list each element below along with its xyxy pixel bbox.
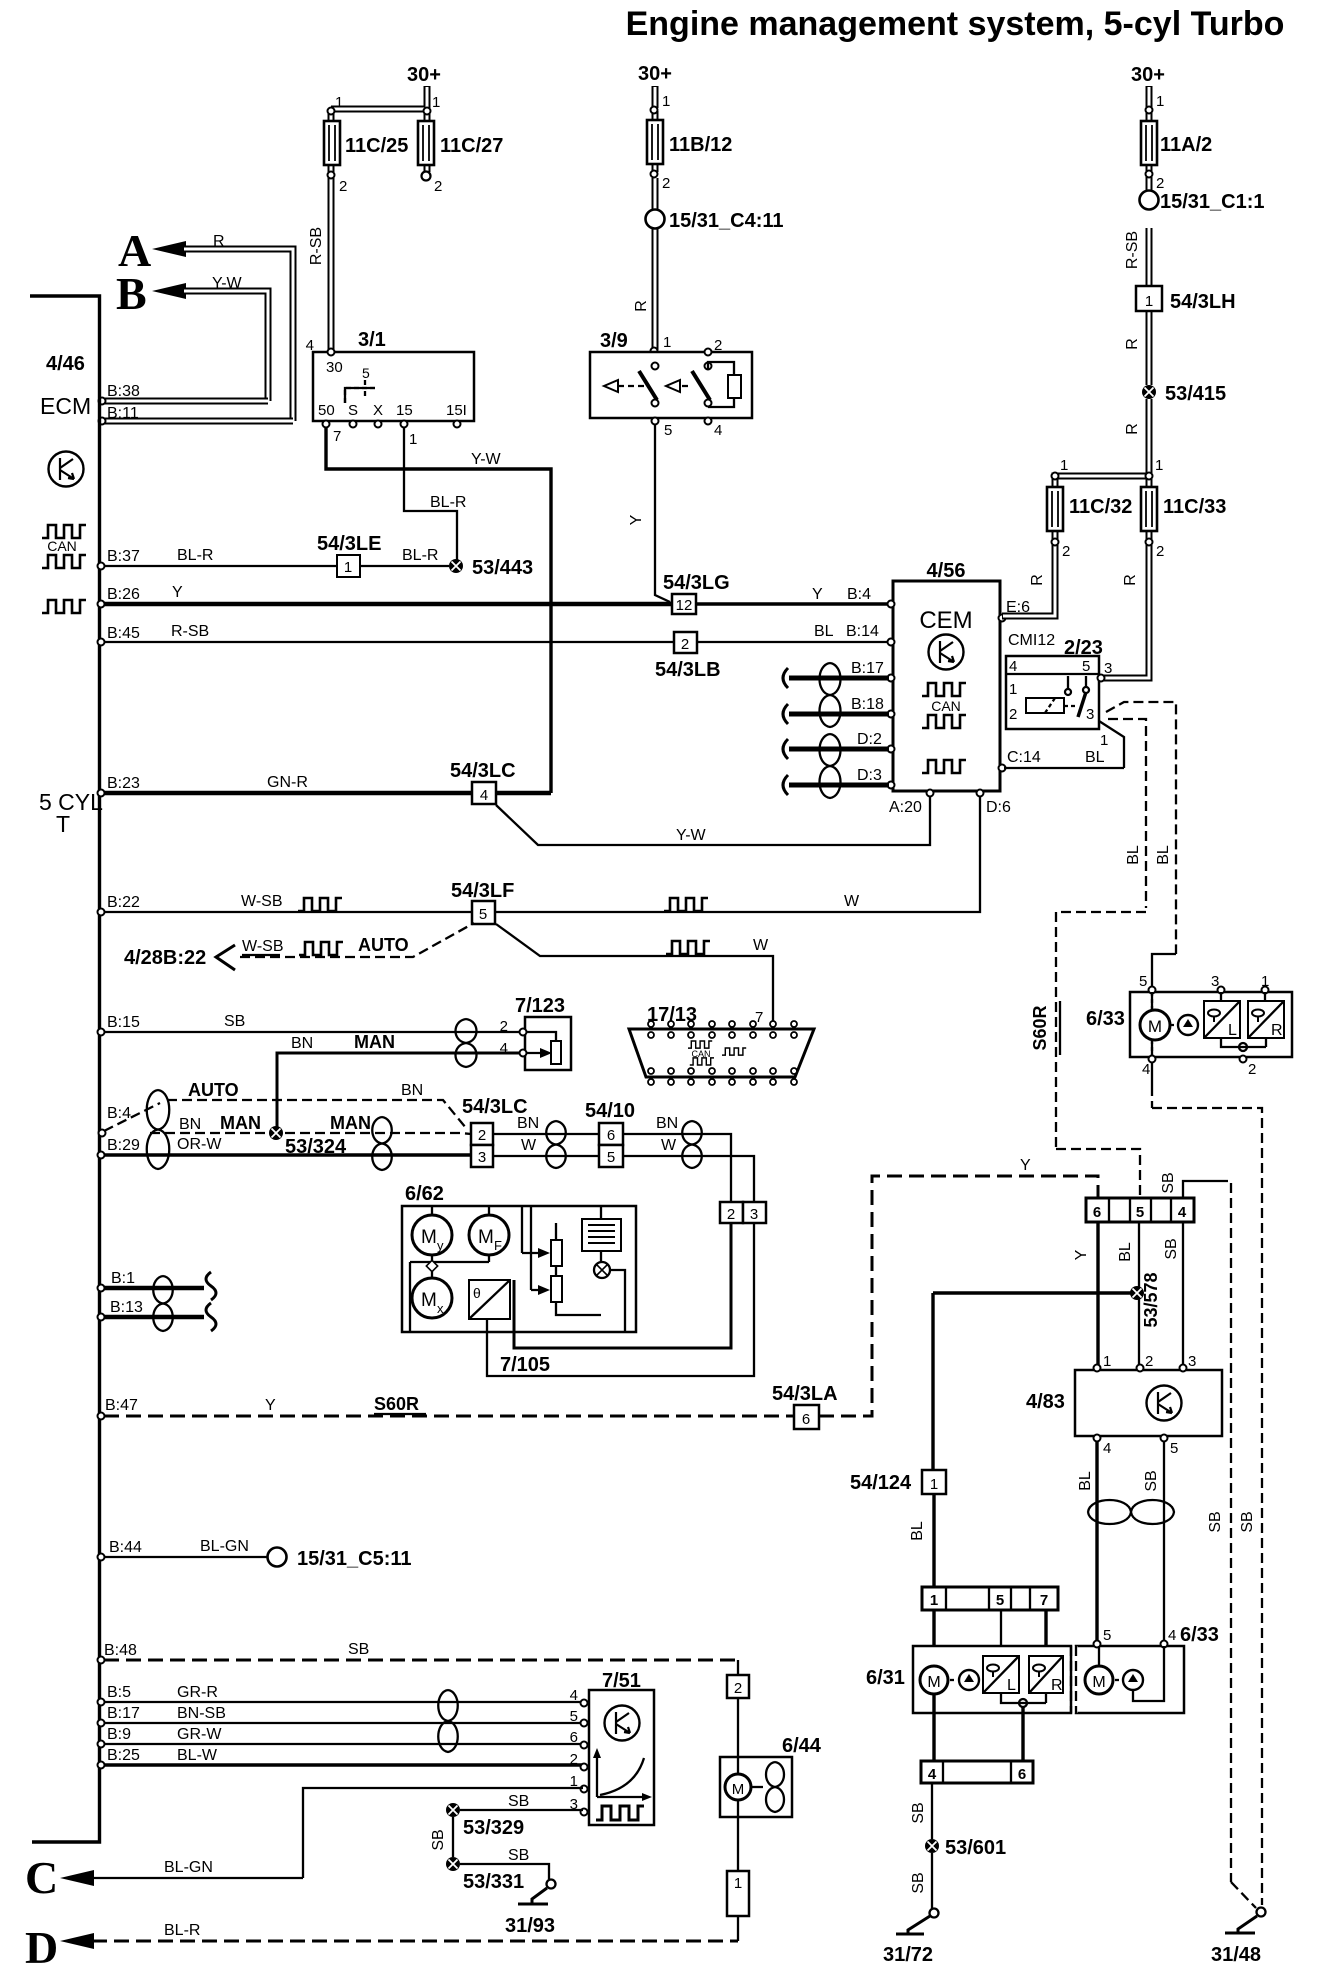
svg-text:54/3LB: 54/3LB xyxy=(655,659,721,681)
svg-text:15I: 15I xyxy=(446,402,467,419)
svg-text:W: W xyxy=(753,937,769,954)
svg-text:R-SB: R-SB xyxy=(1124,231,1141,269)
svg-text:53/601: 53/601 xyxy=(945,1837,1006,1859)
svg-text:7/123: 7/123 xyxy=(515,995,565,1017)
svg-text:B:26: B:26 xyxy=(107,586,140,603)
svg-text:1: 1 xyxy=(432,94,440,111)
svg-text:R: R xyxy=(1124,338,1141,350)
svg-text:30+: 30+ xyxy=(407,64,441,86)
svg-text:1: 1 xyxy=(734,1875,742,1892)
svg-text:W: W xyxy=(661,1137,677,1154)
svg-text:5: 5 xyxy=(607,1149,615,1166)
svg-text:6/62: 6/62 xyxy=(405,1183,444,1205)
svg-text:54/3LH: 54/3LH xyxy=(1170,291,1236,313)
svg-text:B:5: B:5 xyxy=(107,1684,131,1701)
svg-text:7/105: 7/105 xyxy=(500,1354,550,1376)
svg-text:SB: SB xyxy=(1207,1511,1224,1532)
svg-text:6/31: 6/31 xyxy=(866,1667,905,1689)
svg-text:3/9: 3/9 xyxy=(600,330,628,352)
svg-text:11A/2: 11A/2 xyxy=(1160,134,1212,156)
svg-text:B:17: B:17 xyxy=(107,1705,140,1722)
svg-text:M: M xyxy=(732,1781,745,1798)
svg-text:4: 4 xyxy=(1168,1627,1176,1644)
svg-text:CEM: CEM xyxy=(919,607,972,634)
svg-text:T: T xyxy=(56,811,70,837)
svg-text:SB: SB xyxy=(508,1847,529,1864)
svg-text:1: 1 xyxy=(662,93,670,110)
svg-text:Y: Y xyxy=(265,1397,276,1414)
svg-text:5 CYL: 5 CYL xyxy=(39,789,103,815)
svg-text:5: 5 xyxy=(996,1592,1004,1609)
svg-text:S60R: S60R xyxy=(374,1394,419,1414)
svg-text:ECM: ECM xyxy=(40,393,91,419)
svg-text:BL: BL xyxy=(1085,749,1105,766)
svg-text:Y-W: Y-W xyxy=(676,827,707,844)
svg-text:SB: SB xyxy=(1239,1511,1256,1532)
svg-text:4/28B:22: 4/28B:22 xyxy=(124,947,206,969)
svg-text:AUTO: AUTO xyxy=(358,935,409,955)
svg-text:AUTO: AUTO xyxy=(188,1080,239,1100)
svg-text:BN: BN xyxy=(401,1082,423,1099)
svg-text:2: 2 xyxy=(662,175,670,192)
svg-text:Y-W: Y-W xyxy=(471,451,502,468)
svg-text:M: M xyxy=(478,1227,494,1248)
svg-text:2: 2 xyxy=(434,178,442,195)
svg-text:6: 6 xyxy=(1018,1766,1026,1783)
svg-text:GR-R: GR-R xyxy=(177,1684,218,1701)
svg-text:BL: BL xyxy=(909,1521,926,1541)
svg-text:3: 3 xyxy=(1188,1353,1196,1370)
svg-text:SB: SB xyxy=(508,1793,529,1810)
svg-text:MAN: MAN xyxy=(330,1113,371,1133)
svg-text:53/331: 53/331 xyxy=(463,1871,524,1893)
svg-text:5: 5 xyxy=(1139,973,1147,990)
svg-text:1: 1 xyxy=(1261,973,1269,990)
svg-text:2: 2 xyxy=(1062,543,1070,560)
svg-text:R: R xyxy=(1051,1677,1063,1694)
svg-text:B:47: B:47 xyxy=(105,1397,138,1414)
svg-text:BN: BN xyxy=(517,1115,539,1132)
svg-text:W: W xyxy=(521,1137,537,1154)
svg-text:SB: SB xyxy=(1163,1238,1180,1259)
svg-text:y: y xyxy=(437,1238,444,1253)
svg-text:54/124: 54/124 xyxy=(850,1472,912,1494)
svg-text:1: 1 xyxy=(1103,1353,1111,1370)
svg-text:BL: BL xyxy=(814,623,834,640)
svg-text:M: M xyxy=(421,1227,437,1248)
svg-text:R-SB: R-SB xyxy=(171,623,209,640)
svg-text:12: 12 xyxy=(676,597,693,614)
svg-text:BN: BN xyxy=(291,1035,313,1052)
svg-text:7/51: 7/51 xyxy=(602,1670,641,1692)
svg-text:B:9: B:9 xyxy=(107,1726,131,1743)
svg-text:2/23: 2/23 xyxy=(1064,637,1103,659)
svg-text:C: C xyxy=(25,1852,58,1903)
svg-text:SB: SB xyxy=(1143,1470,1160,1491)
svg-text:31/93: 31/93 xyxy=(505,1915,555,1937)
svg-text:BL: BL xyxy=(1155,845,1172,865)
svg-text:B:38: B:38 xyxy=(107,383,140,400)
svg-text:B:1: B:1 xyxy=(111,1270,135,1287)
svg-text:1: 1 xyxy=(335,94,343,111)
svg-text:R-SB: R-SB xyxy=(308,227,325,265)
svg-text:6/33: 6/33 xyxy=(1180,1624,1219,1646)
svg-text:C:14: C:14 xyxy=(1007,749,1041,766)
svg-text:5: 5 xyxy=(1170,1440,1178,1457)
svg-text:OR-W: OR-W xyxy=(177,1136,222,1153)
svg-text:CMI12: CMI12 xyxy=(1008,632,1055,649)
svg-text:Y: Y xyxy=(172,584,183,601)
svg-text:B: B xyxy=(116,268,147,319)
svg-text:BL-R: BL-R xyxy=(164,1922,200,1939)
svg-text:2: 2 xyxy=(500,1018,508,1035)
svg-text:5: 5 xyxy=(664,422,672,439)
svg-text:Y: Y xyxy=(628,514,645,525)
svg-text:3: 3 xyxy=(1211,973,1219,990)
svg-text:BL-R: BL-R xyxy=(177,547,213,564)
svg-text:15/31_C5:11: 15/31_C5:11 xyxy=(297,1548,412,1570)
svg-text:4: 4 xyxy=(480,787,488,804)
svg-text:SB: SB xyxy=(910,1872,927,1893)
svg-text:2: 2 xyxy=(1156,175,1164,192)
svg-text:1: 1 xyxy=(1100,732,1108,749)
svg-text:B:18: B:18 xyxy=(851,696,884,713)
svg-text:BL-W: BL-W xyxy=(177,1747,218,1764)
svg-text:2: 2 xyxy=(1156,543,1164,560)
svg-text:A:20: A:20 xyxy=(889,799,922,816)
svg-text:2: 2 xyxy=(727,1206,735,1223)
svg-text:S60R: S60R xyxy=(1030,1005,1050,1050)
svg-text:4: 4 xyxy=(570,1687,578,1704)
svg-text:5: 5 xyxy=(1103,1627,1111,1644)
svg-text:BL-R: BL-R xyxy=(430,494,466,511)
svg-text:54/10: 54/10 xyxy=(585,1100,635,1122)
svg-text:M: M xyxy=(927,1674,940,1691)
svg-text:2: 2 xyxy=(339,178,347,195)
svg-text:6: 6 xyxy=(1093,1204,1101,1221)
svg-text:53/415: 53/415 xyxy=(1165,383,1226,405)
svg-text:1: 1 xyxy=(1156,93,1164,110)
svg-text:1: 1 xyxy=(930,1476,938,1493)
svg-text:B:22: B:22 xyxy=(107,894,140,911)
svg-text:31/48: 31/48 xyxy=(1211,1944,1261,1966)
svg-text:F: F xyxy=(494,1238,502,1253)
svg-text:2: 2 xyxy=(714,337,722,354)
svg-text:BL: BL xyxy=(1077,1471,1094,1491)
svg-text:53/578: 53/578 xyxy=(1141,1272,1161,1327)
svg-text:D:3: D:3 xyxy=(857,767,882,784)
svg-text:4: 4 xyxy=(306,337,314,354)
svg-text:53/443: 53/443 xyxy=(472,557,533,579)
svg-text:3: 3 xyxy=(478,1149,486,1166)
svg-text:15: 15 xyxy=(396,402,413,419)
svg-text:B:13: B:13 xyxy=(110,1299,143,1316)
svg-text:R: R xyxy=(1122,574,1139,586)
svg-text:Y: Y xyxy=(1020,1157,1031,1174)
svg-text:2: 2 xyxy=(734,1680,742,1697)
svg-text:11C/25: 11C/25 xyxy=(345,135,408,157)
svg-text:B:45: B:45 xyxy=(107,625,140,642)
svg-text:11B/12: 11B/12 xyxy=(669,134,732,156)
svg-text:B:37: B:37 xyxy=(107,548,140,565)
svg-text:CAN: CAN xyxy=(691,1049,710,1059)
svg-text:BL-GN: BL-GN xyxy=(200,1538,249,1555)
svg-text:SB: SB xyxy=(348,1641,369,1658)
svg-text:B:11: B:11 xyxy=(107,405,139,422)
svg-text:B:4: B:4 xyxy=(107,1105,131,1122)
svg-text:1: 1 xyxy=(1145,293,1153,310)
svg-text:W-SB: W-SB xyxy=(241,893,282,910)
svg-text:2: 2 xyxy=(1009,706,1017,723)
svg-text:4: 4 xyxy=(714,422,722,439)
svg-text:54/3LG: 54/3LG xyxy=(663,572,730,594)
svg-text:54/3LC: 54/3LC xyxy=(450,760,516,782)
svg-text:4/56: 4/56 xyxy=(927,560,966,582)
svg-text:SB: SB xyxy=(224,1013,245,1030)
svg-text:4: 4 xyxy=(500,1040,508,1057)
svg-text:R: R xyxy=(1029,574,1046,586)
svg-text:54/3LE: 54/3LE xyxy=(317,533,381,555)
svg-text:B:17: B:17 xyxy=(851,660,884,677)
svg-text:R: R xyxy=(633,300,650,312)
svg-text:30+: 30+ xyxy=(638,63,672,85)
svg-text:R: R xyxy=(213,233,225,250)
svg-text:1: 1 xyxy=(1155,457,1163,474)
svg-text:1: 1 xyxy=(1009,681,1017,698)
svg-text:6: 6 xyxy=(570,1729,578,1746)
svg-text:2: 2 xyxy=(478,1127,486,1144)
svg-text:3: 3 xyxy=(1086,706,1094,723)
svg-text:L: L xyxy=(1228,1022,1237,1039)
svg-text:B:4: B:4 xyxy=(847,586,871,603)
svg-text:5: 5 xyxy=(1136,1204,1144,1221)
svg-text:1: 1 xyxy=(409,431,417,448)
svg-text:x: x xyxy=(437,1301,444,1316)
svg-text:53/329: 53/329 xyxy=(463,1817,524,1839)
svg-text:W-SB: W-SB xyxy=(242,938,283,955)
svg-text:11C/32: 11C/32 xyxy=(1069,496,1132,518)
svg-text:X: X xyxy=(373,402,383,419)
svg-text:B:15: B:15 xyxy=(107,1014,140,1031)
svg-text:5: 5 xyxy=(570,1708,578,1725)
svg-text:B:23: B:23 xyxy=(107,775,140,792)
svg-text:CAN: CAN xyxy=(47,538,77,554)
svg-text:1: 1 xyxy=(1060,457,1068,474)
svg-text:Y: Y xyxy=(812,586,823,603)
svg-text:31/72: 31/72 xyxy=(883,1944,933,1966)
svg-text:1: 1 xyxy=(930,1592,938,1609)
svg-text:BN: BN xyxy=(179,1116,201,1133)
svg-text:6: 6 xyxy=(802,1411,810,1428)
svg-text:1: 1 xyxy=(344,559,352,576)
svg-text:1: 1 xyxy=(663,334,671,351)
svg-text:M: M xyxy=(421,1290,437,1311)
svg-text:7: 7 xyxy=(1040,1592,1048,1609)
svg-text:15/31_C1:1: 15/31_C1:1 xyxy=(1160,191,1265,213)
svg-text:B:48: B:48 xyxy=(104,1642,137,1659)
svg-text:W: W xyxy=(844,893,860,910)
svg-text:Y: Y xyxy=(1073,1249,1090,1260)
svg-text:B:44: B:44 xyxy=(109,1539,142,1556)
svg-text:54/3LF: 54/3LF xyxy=(451,880,514,902)
svg-text:S: S xyxy=(348,402,358,419)
svg-text:15/31_C4:11: 15/31_C4:11 xyxy=(669,210,784,232)
svg-text:3/1: 3/1 xyxy=(358,329,386,351)
svg-text:5: 5 xyxy=(1082,658,1090,675)
svg-text:SB: SB xyxy=(430,1829,447,1850)
svg-text:11C/33: 11C/33 xyxy=(1163,496,1226,518)
svg-text:MAN: MAN xyxy=(220,1113,261,1133)
svg-text:7: 7 xyxy=(333,428,341,445)
svg-text:BL-R: BL-R xyxy=(402,547,438,564)
svg-text:54/3LA: 54/3LA xyxy=(772,1383,838,1405)
svg-text:R: R xyxy=(1271,1022,1283,1039)
svg-text:5: 5 xyxy=(362,365,370,381)
svg-text:4: 4 xyxy=(1178,1204,1187,1221)
svg-text:θ: θ xyxy=(473,1285,481,1301)
svg-text:30+: 30+ xyxy=(1131,64,1165,86)
svg-text:L: L xyxy=(1007,1677,1016,1694)
svg-text:3: 3 xyxy=(750,1206,758,1223)
svg-text:B:14: B:14 xyxy=(846,623,879,640)
svg-text:6/44: 6/44 xyxy=(782,1735,822,1757)
svg-text:4: 4 xyxy=(1009,658,1017,675)
svg-text:6/33: 6/33 xyxy=(1086,1008,1125,1030)
svg-text:BN-SB: BN-SB xyxy=(177,1705,226,1722)
svg-text:BL-GN: BL-GN xyxy=(164,1859,213,1876)
svg-text:5: 5 xyxy=(479,906,487,923)
svg-text:B:29: B:29 xyxy=(107,1137,140,1154)
svg-text:50: 50 xyxy=(318,402,335,419)
svg-text:4: 4 xyxy=(1142,1061,1150,1078)
svg-text:B:25: B:25 xyxy=(107,1747,140,1764)
svg-text:2: 2 xyxy=(570,1751,578,1768)
svg-text:2: 2 xyxy=(1145,1353,1153,1370)
svg-text:4/46: 4/46 xyxy=(46,353,85,375)
svg-text:GN-R: GN-R xyxy=(267,774,308,791)
svg-text:D:2: D:2 xyxy=(857,731,882,748)
svg-text:3: 3 xyxy=(1104,660,1112,677)
svg-text:Engine management system, 5-cy: Engine management system, 5-cyl Turbo xyxy=(626,5,1285,43)
svg-text:GR-W: GR-W xyxy=(177,1726,222,1743)
svg-text:2: 2 xyxy=(681,636,689,653)
svg-text:MAN: MAN xyxy=(354,1032,395,1052)
svg-text:D:6: D:6 xyxy=(986,799,1011,816)
svg-text:11C/27: 11C/27 xyxy=(440,135,503,157)
svg-text:R: R xyxy=(1124,423,1141,435)
svg-text:SB: SB xyxy=(1160,1172,1177,1193)
svg-text:Y-W: Y-W xyxy=(212,275,243,292)
svg-text:4/83: 4/83 xyxy=(1026,1391,1065,1413)
svg-text:D: D xyxy=(25,1922,58,1972)
svg-text:M: M xyxy=(1092,1674,1105,1691)
svg-text:30: 30 xyxy=(326,359,343,376)
svg-text:BL: BL xyxy=(1117,1242,1134,1262)
svg-text:BN: BN xyxy=(656,1115,678,1132)
svg-text:SB: SB xyxy=(910,1802,927,1823)
svg-text:4: 4 xyxy=(1103,1440,1111,1457)
svg-text:4: 4 xyxy=(928,1766,937,1783)
svg-text:CAN: CAN xyxy=(931,698,961,714)
svg-text:BL: BL xyxy=(1125,845,1142,865)
svg-text:2: 2 xyxy=(1248,1061,1256,1078)
svg-text:6: 6 xyxy=(607,1127,615,1144)
svg-text:M: M xyxy=(1148,1017,1162,1036)
